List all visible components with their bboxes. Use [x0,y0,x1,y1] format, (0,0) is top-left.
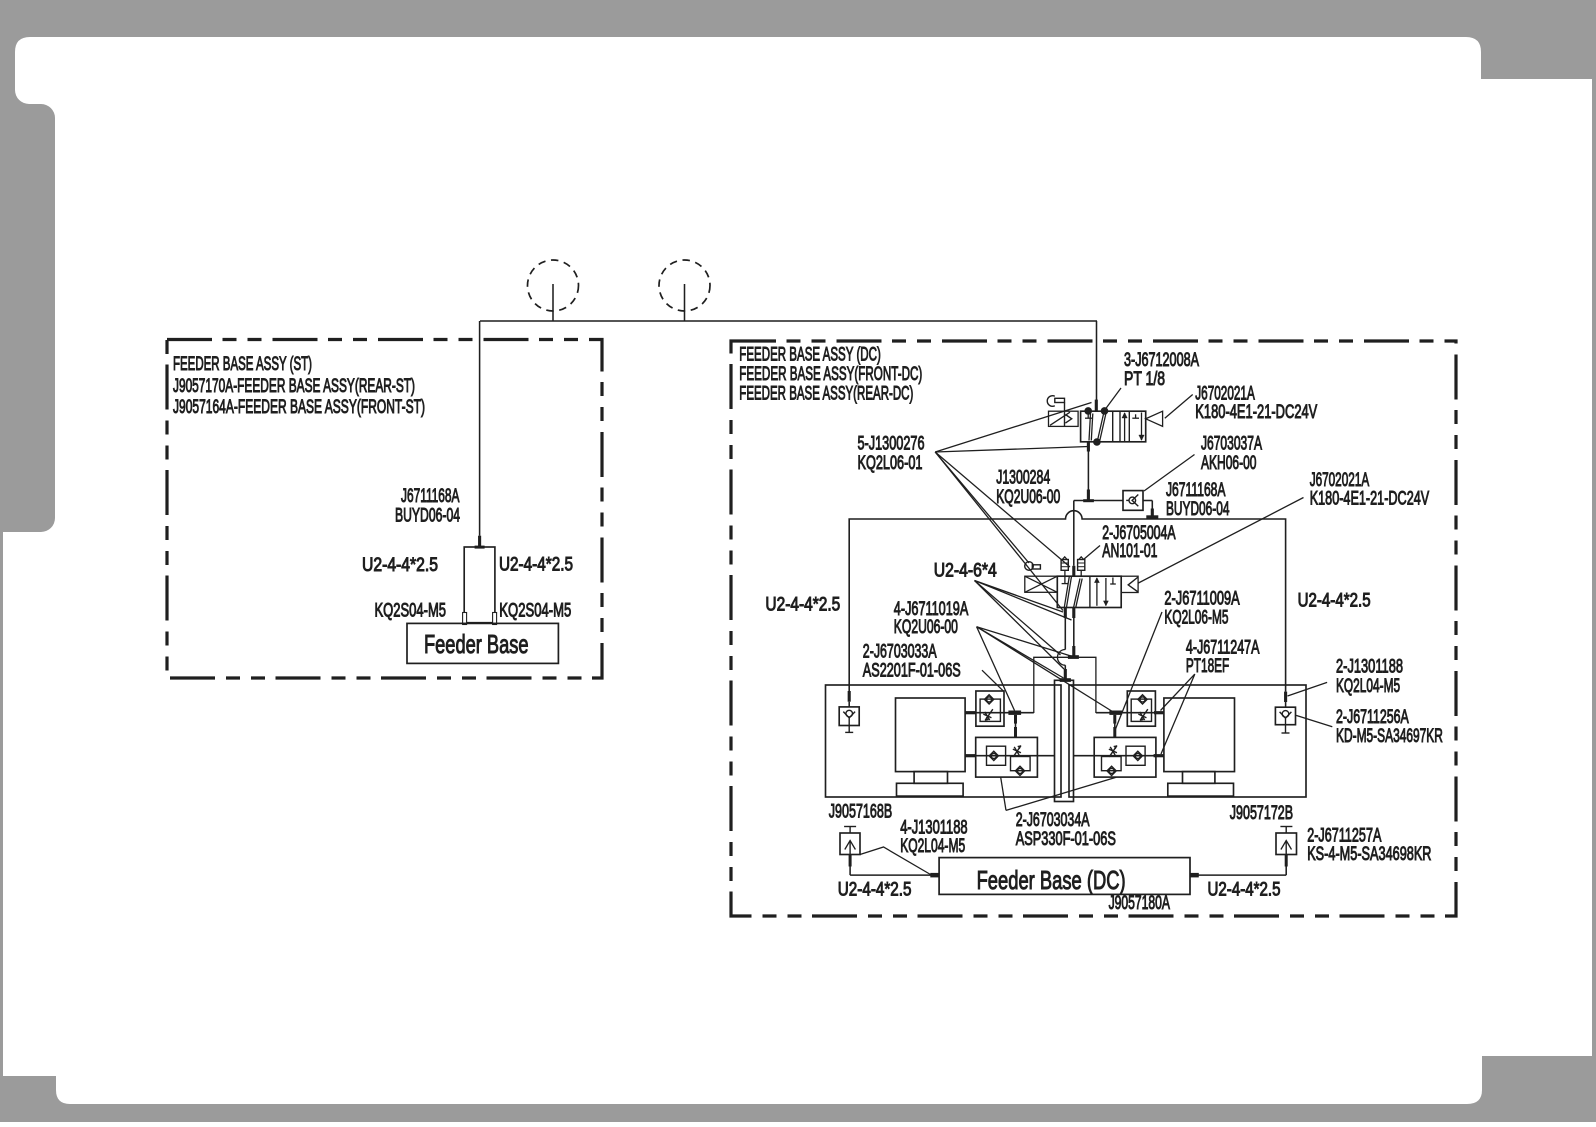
svg-text:AN101-01: AN101-01 [1102,541,1157,562]
svg-text:J6711168A: J6711168A [401,486,460,507]
svg-text:J9057172B: J9057172B [1230,803,1293,824]
svg-text:U2-4-4*2.5: U2-4-4*2.5 [499,555,573,576]
svg-text:KQ2S04-M5: KQ2S04-M5 [375,601,447,622]
svg-text:U2-4-4*2.5: U2-4-4*2.5 [1208,880,1281,901]
svg-text:2-J1301188: 2-J1301188 [1336,657,1403,678]
svg-text:FEEDER BASE ASSY(REAR-DC): FEEDER BASE ASSY(REAR-DC) [739,384,913,405]
svg-text:KS-4-M5-SA34698KR: KS-4-M5-SA34698KR [1307,844,1431,865]
svg-text:PT18EF: PT18EF [1186,656,1229,677]
svg-text:KQ2L06-01: KQ2L06-01 [858,453,923,474]
svg-text:KQ2S04-M5: KQ2S04-M5 [499,601,571,622]
svg-text:Feeder Base (DC): Feeder Base (DC) [977,865,1126,895]
svg-text:FEEDER BASE ASSY (ST): FEEDER BASE ASSY (ST) [173,354,312,375]
svg-text:J9057164A-FEEDER BASE ASSY(FRO: J9057164A-FEEDER BASE ASSY(FRONT-ST) [173,397,425,418]
svg-text:J6711168A: J6711168A [1166,480,1226,501]
svg-text:J1300284: J1300284 [996,468,1050,489]
svg-text:3-J6712008A: 3-J6712008A [1124,350,1199,371]
svg-text:J6703037A: J6703037A [1201,434,1262,455]
svg-text:KQ2L04-M5: KQ2L04-M5 [900,836,965,857]
svg-text:KQ2L04-M5: KQ2L04-M5 [1336,676,1400,697]
svg-text:AS2201F-01-06S: AS2201F-01-06S [863,661,961,682]
svg-text:KQ2L06-M5: KQ2L06-M5 [1164,608,1228,629]
svg-text:U2-4-4*2.5: U2-4-4*2.5 [1298,591,1371,612]
svg-text:AKH06-00: AKH06-00 [1201,453,1257,474]
svg-text:PT 1/8: PT 1/8 [1124,369,1165,390]
svg-text:J9057170A-FEEDER BASE ASSY(REA: J9057170A-FEEDER BASE ASSY(REAR-ST) [173,376,415,397]
svg-text:FEEDER BASE ASSY (DC): FEEDER BASE ASSY (DC) [739,345,881,366]
svg-text:KQ2U06-00: KQ2U06-00 [894,617,958,638]
svg-text:2-J6703034A: 2-J6703034A [1016,810,1090,831]
svg-text:KQ2U06-00: KQ2U06-00 [996,487,1060,508]
svg-text:KD-M5-SA34697KR: KD-M5-SA34697KR [1336,726,1443,747]
svg-text:5-J1300276: 5-J1300276 [858,434,925,455]
svg-text:K180-4E1-21-DC24V: K180-4E1-21-DC24V [1195,402,1317,423]
svg-text:Feeder Base: Feeder Base [424,629,529,659]
svg-text:2-J6711256A: 2-J6711256A [1336,707,1409,728]
svg-text:K180-4E1-21-DC24V: K180-4E1-21-DC24V [1310,489,1430,510]
svg-text:U2-4-4*2.5: U2-4-4*2.5 [838,880,912,901]
svg-text:J9057180A: J9057180A [1109,893,1171,914]
svg-text:2-J6711009A: 2-J6711009A [1164,589,1240,610]
svg-text:U2-4-6*4: U2-4-6*4 [934,561,997,582]
svg-text:ASP330F-01-06S: ASP330F-01-06S [1016,829,1116,850]
svg-text:2-J6703033A: 2-J6703033A [863,642,937,663]
svg-text:U2-4-4*2.5: U2-4-4*2.5 [362,555,438,576]
svg-text:FEEDER BASE ASSY(FRONT-DC): FEEDER BASE ASSY(FRONT-DC) [739,364,922,385]
svg-text:BUYD06-04: BUYD06-04 [395,506,460,527]
svg-text:U2-4-4*2.5: U2-4-4*2.5 [765,595,840,616]
svg-text:J9057168B: J9057168B [829,802,892,823]
svg-text:BUYD06-04: BUYD06-04 [1166,499,1230,520]
